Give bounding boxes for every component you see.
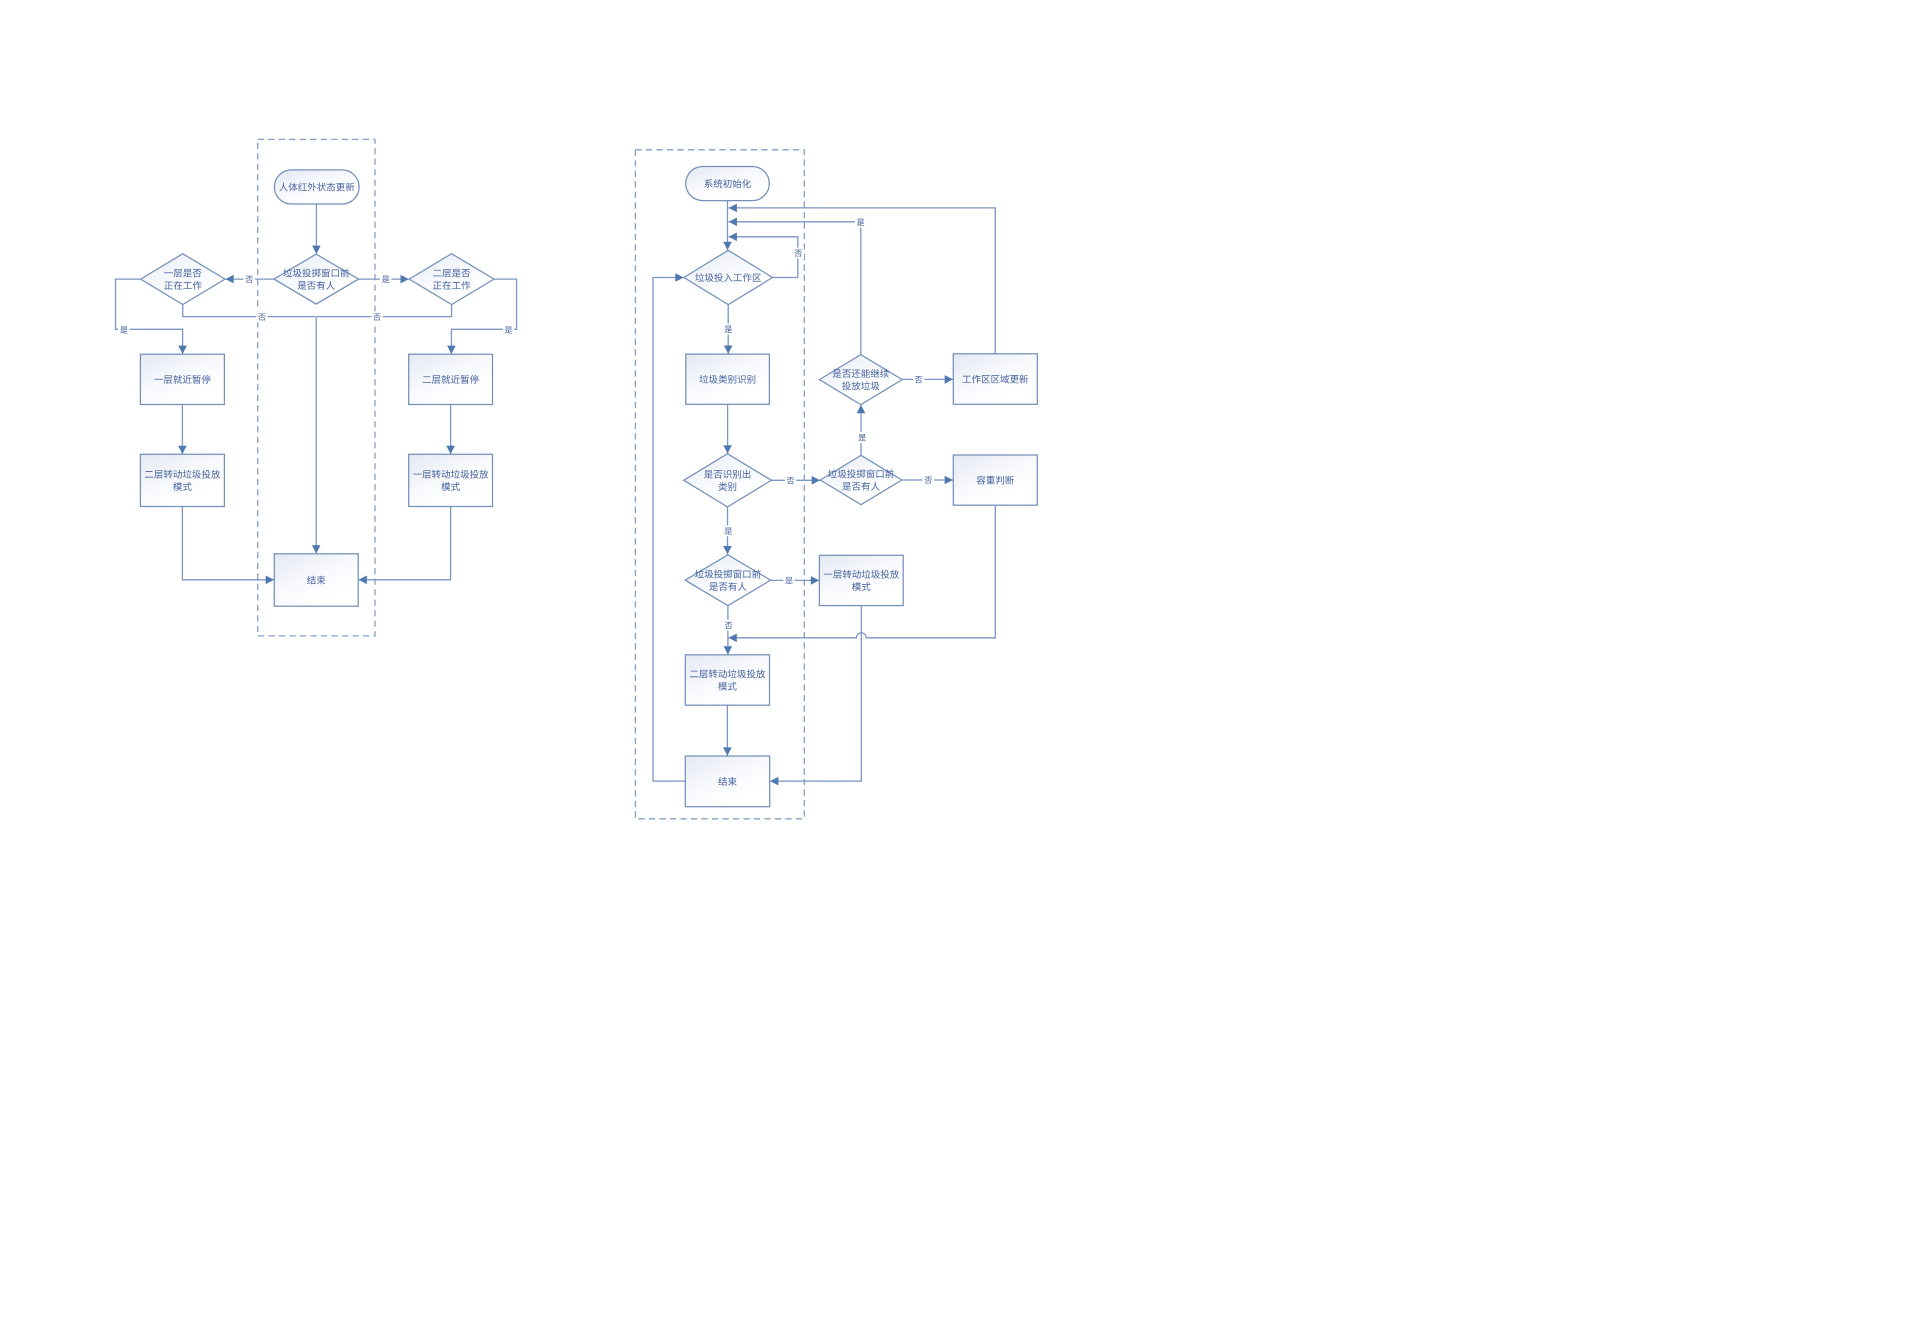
wire: stadium 人体红外状态更新 -> diamond 垃圾投掷窗口前是否有人 [312, 204, 321, 254]
node: decision 垃圾投掷窗口前是否有人 (middle) [820, 455, 901, 504]
node: process 一层转动垃圾投放模式 (left chart) [409, 454, 493, 506]
container: right flowchart dashed boundary [635, 150, 804, 819]
wire: 二层转动垃圾投放模式 -> 结束 (right chart) [723, 705, 732, 756]
label: 否 below lower diamond [723, 620, 734, 631]
wire: rect 二层就近暂停 -> rect 一层转动垃圾投放模式 [446, 405, 455, 455]
label: 否 left of center diamond [244, 274, 255, 285]
node: process 二层转动垃圾投放模式 (right chart) [685, 655, 769, 705]
node: decision 二层是否正在工作 [409, 254, 494, 305]
label: 是 below 是否识别出类别 [723, 525, 734, 536]
wire: 垃圾类别识别 -> diamond 是否识别出类别 [723, 404, 732, 453]
container: left flowchart dashed boundary [258, 139, 375, 636]
wire: 二层是否正在工作 否 -> center line [317, 305, 452, 317]
node: decision 垃圾投入工作区 [684, 250, 773, 304]
wire: 二层是否正在工作 是-loop -> rect 二层就近暂停 [447, 279, 516, 354]
node: process 一层就近暂停 [140, 354, 224, 404]
node: process 一层转动垃圾投放模式 (right chart) [819, 555, 903, 605]
wire: 垃圾投入工作区 是 -> rect 垃圾类别识别 [724, 305, 733, 354]
wire: stadium 系统初始化 -> diamond 垃圾投入工作区 [723, 201, 732, 250]
node: decision 垃圾投掷窗口前是否有人 (lower) [685, 555, 770, 606]
wire: 是否还能继续投放垃圾 否 -> rect 工作区区域更新 [902, 375, 953, 384]
wire: diamond center -> diamond 二层是否正在工作 (是) [359, 275, 409, 284]
wire: 垃圾投入工作区 否-loop -> main line [729, 233, 798, 278]
wire: 是否识别出类别 是 -> diamond 垃圾投掷窗口前是否有人 [723, 507, 732, 554]
wire: middle diamond 否 -> rect 容重判断 [902, 476, 953, 485]
label: 是 on left loop [118, 324, 129, 335]
wire: 结束 loop -> 垃圾投入工作区 [653, 273, 685, 781]
label: 是 on right loop [503, 324, 514, 335]
wire: lower diamond 是 -> rect 一层转动垃圾投放模式 [771, 576, 820, 585]
label: 是 at top merge corner [855, 217, 866, 228]
node: process 工作区区域更新 [953, 354, 1037, 405]
node: decision 垃圾投掷窗口前是否有人 (left chart) [274, 254, 359, 304]
node: process 二层就近暂停 [409, 354, 493, 404]
node: process 容重判断 [953, 455, 1037, 505]
node: process 二层转动垃圾投放模式 (left chart) [140, 454, 224, 506]
wire: 一层转动垃圾投放模式 -> 结束 (right chart) [770, 606, 861, 786]
node: end 结束 (left chart) [274, 554, 358, 606]
wire: middle diamond 是 -> diamond 是否还能继续投放垃圾 [857, 405, 866, 455]
node: decision 是否还能继续投放垃圾 [819, 355, 902, 405]
wire: 容重判断 -> 否-branch line (merge with hop) [729, 505, 996, 642]
wire: 是否识别出类别 否 -> diamond 垃圾投掷窗口前是否有人 (middle) [771, 476, 820, 485]
wire: 工作区区域更新 -> main line (top merge) [729, 204, 996, 354]
wire: diamond center -> diamond 一层是否正在工作 (否) [225, 275, 274, 284]
node: start 人体红外状态更新 [274, 170, 359, 204]
label: 否 right of 是否识别出类别 [785, 475, 796, 486]
wire: 一层是否正在工作 是-loop -> rect 一层就近暂停 [116, 279, 187, 354]
label: 否 right of 是否还能继续投放垃圾 [913, 374, 924, 385]
label: 否 on right bottom branch [371, 311, 382, 322]
label: 是 right of center diamond [380, 274, 391, 285]
label: 否 on 垃圾投入工作区 loop [793, 248, 804, 259]
node: decision 是否识别出类别 [684, 454, 772, 507]
label: 否 on left bottom branch [256, 311, 267, 322]
label: 否 right of middle diamond [923, 475, 934, 486]
label: 是 right of lower diamond [783, 575, 794, 586]
label: 是 above middle diamond [857, 432, 868, 443]
wire: lower diamond 否 -> rect 二层转动垃圾投放模式 [724, 605, 733, 654]
wire: 是否还能继续投放垃圾 是 -> main line [729, 218, 861, 355]
node: decision 一层是否正在工作 [141, 254, 225, 305]
wire: 一层是否正在工作 否 -> center line [183, 305, 316, 317]
wire: 二层转动垃圾投放模式 -> 结束 [182, 507, 274, 585]
node: start 系统初始化 [686, 167, 770, 201]
node: process 垃圾类别识别 [686, 354, 770, 404]
wire: 一层转动垃圾投放模式 -> 结束 [359, 507, 451, 585]
wire: diamond center bottom -> rect 结束 [312, 317, 321, 554]
wire: rect 一层就近暂停 -> rect 二层转动垃圾投放模式 [178, 405, 187, 455]
node: end 结束 (right chart) [685, 756, 769, 807]
label: 是 below 垃圾投入工作区 [723, 324, 734, 335]
